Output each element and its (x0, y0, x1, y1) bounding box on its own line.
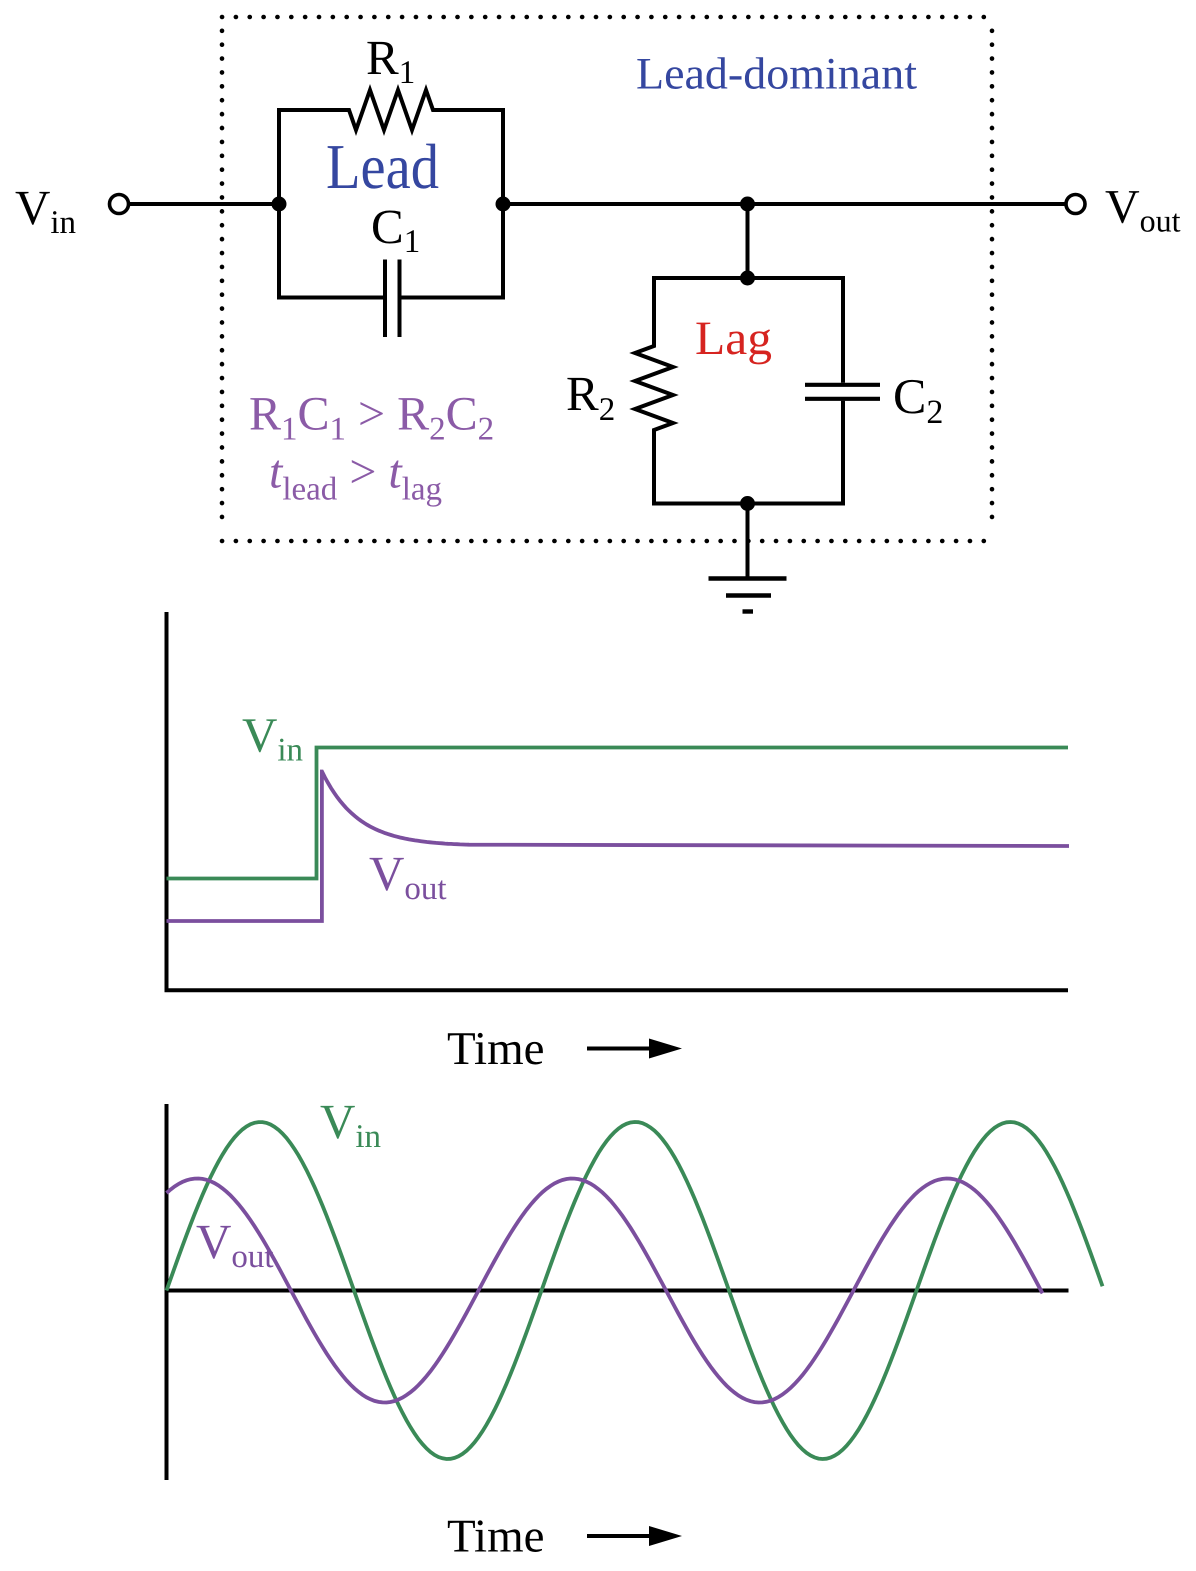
node: lag tap on main wire (740, 197, 755, 212)
wire: lead output to output terminal (503, 202, 1066, 206)
wire: input to lead network (129, 202, 280, 206)
input terminal (110, 195, 129, 214)
wire: lead box right vertical (501, 110, 505, 298)
wire: lead box bottom (through C1) (277, 296, 383, 300)
sine plot V_in trace (167, 1122, 1103, 1459)
arrow (step plot) (587, 1039, 682, 1059)
wire: lag box bottom (652, 502, 845, 506)
svg-text:Lead: Lead (326, 131, 439, 202)
sine plot V_out trace (167, 1179, 1043, 1403)
node: lag network top (740, 271, 755, 286)
step plot horizontal axis (165, 988, 1069, 992)
resistor R1 (277, 90, 505, 130)
resistor R2 (635, 276, 673, 506)
svg-text:Lag: Lag (695, 312, 772, 365)
ground (709, 504, 787, 612)
capacitor C1 plates (383, 260, 387, 338)
wire: branch down to lag network (746, 204, 750, 278)
node: lead network input (272, 197, 287, 212)
sine plot vertical axis (165, 1104, 169, 1480)
wire: lag box right vertical (through C2) (841, 276, 845, 383)
wire: lead box left vertical (277, 110, 281, 298)
node: lead network output (496, 197, 511, 212)
svg-text:Lead-dominant: Lead-dominant (636, 49, 918, 99)
dotted enclosure box (222, 17, 992, 541)
sine plot horizontal axis (165, 1289, 1069, 1293)
output terminal (1066, 195, 1085, 214)
svg-text:Time: Time (447, 1511, 545, 1563)
svg-text:Time: Time (447, 1023, 545, 1075)
step plot vertical axis (165, 612, 169, 992)
step plot V_out trace (167, 772, 1070, 922)
node: lag network bottom (740, 496, 755, 511)
capacitor C2 plates (805, 383, 880, 387)
wire: lag box top (652, 276, 843, 280)
step plot V_in trace (167, 748, 1069, 879)
arrow (sine plot) (587, 1526, 682, 1546)
